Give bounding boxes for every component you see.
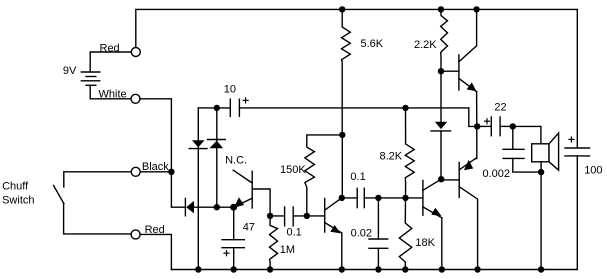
wire Black terminal to bus xyxy=(140,171,171,173)
resistor R1 1M xyxy=(270,216,278,270)
node Q2 collector xyxy=(339,195,345,201)
wire battery plus to Red terminal xyxy=(90,51,131,53)
node noise emitter junction xyxy=(230,204,237,211)
node top rail to Q4 collector xyxy=(473,6,479,12)
diode D1 pointing down xyxy=(189,140,207,148)
resistor R5 18K xyxy=(399,198,412,270)
wire Red bottom to ground rail xyxy=(140,234,171,269)
capacitor C7 0.002 xyxy=(503,126,541,172)
label plus C1 xyxy=(243,98,248,103)
terminal Red top xyxy=(131,48,140,57)
terminal Red bottom xyxy=(131,230,140,239)
capacitor C4 0.1 coupling xyxy=(342,188,423,207)
wire to speaker top xyxy=(513,126,541,143)
node Q5 collector ground xyxy=(474,266,480,272)
label plus C2 xyxy=(224,251,229,256)
node Black junction xyxy=(168,169,174,175)
switch S1 chuff xyxy=(54,172,132,234)
node 0.02 ground xyxy=(375,266,381,272)
node 0.02 top xyxy=(375,195,381,201)
node 8.2K top xyxy=(402,105,408,111)
node D2 bottom xyxy=(214,204,220,210)
wire bottom ground rail xyxy=(171,156,577,270)
diode D2 pointing up xyxy=(208,108,226,207)
wire H4 bend down to emitters node xyxy=(469,108,477,127)
transistor Q1 noise source xyxy=(233,170,270,216)
svg-text:22: 22 xyxy=(494,101,506,113)
transistor Q5 output xyxy=(441,126,477,269)
resistor R6 2.2K xyxy=(441,9,448,71)
svg-text:Red: Red xyxy=(100,43,120,55)
capacitor C6 22uF xyxy=(477,117,513,136)
node emitters junction xyxy=(474,123,480,129)
node 22uF right xyxy=(510,123,516,129)
label plus C8 xyxy=(569,137,574,142)
node 1M top xyxy=(267,213,273,219)
wire H4 from D1 top to 10uF cap xyxy=(198,107,230,109)
svg-text:2.2K: 2.2K xyxy=(414,39,437,51)
resistor R4 8.2K xyxy=(405,108,414,198)
node 1M ground xyxy=(267,266,273,272)
node Q2 emitter ground xyxy=(339,266,345,272)
svg-text:18K: 18K xyxy=(415,237,435,249)
svg-text:0.1: 0.1 xyxy=(350,171,365,183)
terminal Black xyxy=(131,167,140,176)
capacitor C8 100uF xyxy=(565,148,590,156)
capacitor C2 47uF xyxy=(222,207,244,269)
resistor R2 150K xyxy=(305,135,342,216)
svg-text:47: 47 xyxy=(243,222,255,234)
wire 10uF node down through D1 to ground xyxy=(197,108,199,270)
node top rail to 5.6K xyxy=(339,6,345,12)
node Q4 base xyxy=(438,68,444,74)
capacitor C1 10uF xyxy=(230,99,468,116)
node 8.2K bottom Q3 base xyxy=(402,195,408,201)
wire White terminal down left bus xyxy=(140,99,185,207)
resistor R3 5.6K xyxy=(342,9,351,134)
node top rail to 2.2K xyxy=(438,6,444,12)
node Q5 base xyxy=(438,176,444,182)
diode D4 pointing down xyxy=(431,122,451,179)
svg-text:1M: 1M xyxy=(280,244,295,256)
svg-text:8.2K: 8.2K xyxy=(380,151,403,163)
node D1 ground xyxy=(195,266,201,272)
svg-text:9V: 9V xyxy=(63,65,77,77)
speaker SP1 xyxy=(532,133,559,270)
svg-text:0.002: 0.002 xyxy=(483,168,511,180)
transistor Q3 second amp xyxy=(423,179,442,269)
battery B1 9V xyxy=(81,52,100,99)
transistor Q2 first amp xyxy=(325,198,342,270)
terminal White xyxy=(131,94,140,103)
wire 5.6K node down to Q2 collector xyxy=(341,135,343,198)
node speaker ground xyxy=(538,266,544,272)
svg-text:N.C.: N.C. xyxy=(225,155,247,167)
node C2 ground xyxy=(231,266,237,272)
node Q3 emitter ground xyxy=(439,266,445,272)
node Q2 base xyxy=(304,213,310,219)
capacitor C3 0.1 xyxy=(270,207,325,226)
transistor Q4 driver xyxy=(441,9,477,126)
label plus C6 xyxy=(485,119,490,124)
wire Q4 base node down to D4 xyxy=(440,71,442,122)
svg-text:Black: Black xyxy=(142,161,169,173)
node speaker bottom junction xyxy=(538,169,544,175)
svg-text:Chuff: Chuff xyxy=(2,181,29,193)
svg-text:150K: 150K xyxy=(280,164,306,176)
wire top rail xyxy=(136,9,578,147)
svg-text:Switch: Switch xyxy=(2,194,34,206)
node 10uF left xyxy=(214,105,220,111)
capacitor C5 0.02 xyxy=(369,198,388,270)
svg-text:100: 100 xyxy=(584,165,602,177)
svg-text:0.02: 0.02 xyxy=(351,228,372,240)
node 150K 5.6K junction xyxy=(339,132,345,138)
wire battery minus to White terminal xyxy=(90,98,131,100)
svg-text:10: 10 xyxy=(224,83,236,95)
svg-text:White: White xyxy=(99,89,127,101)
svg-text:0.1: 0.1 xyxy=(287,227,302,239)
svg-text:5.6K: 5.6K xyxy=(361,38,384,50)
node 18K ground xyxy=(402,266,408,272)
diode D3 on noise feed wire xyxy=(185,199,233,216)
